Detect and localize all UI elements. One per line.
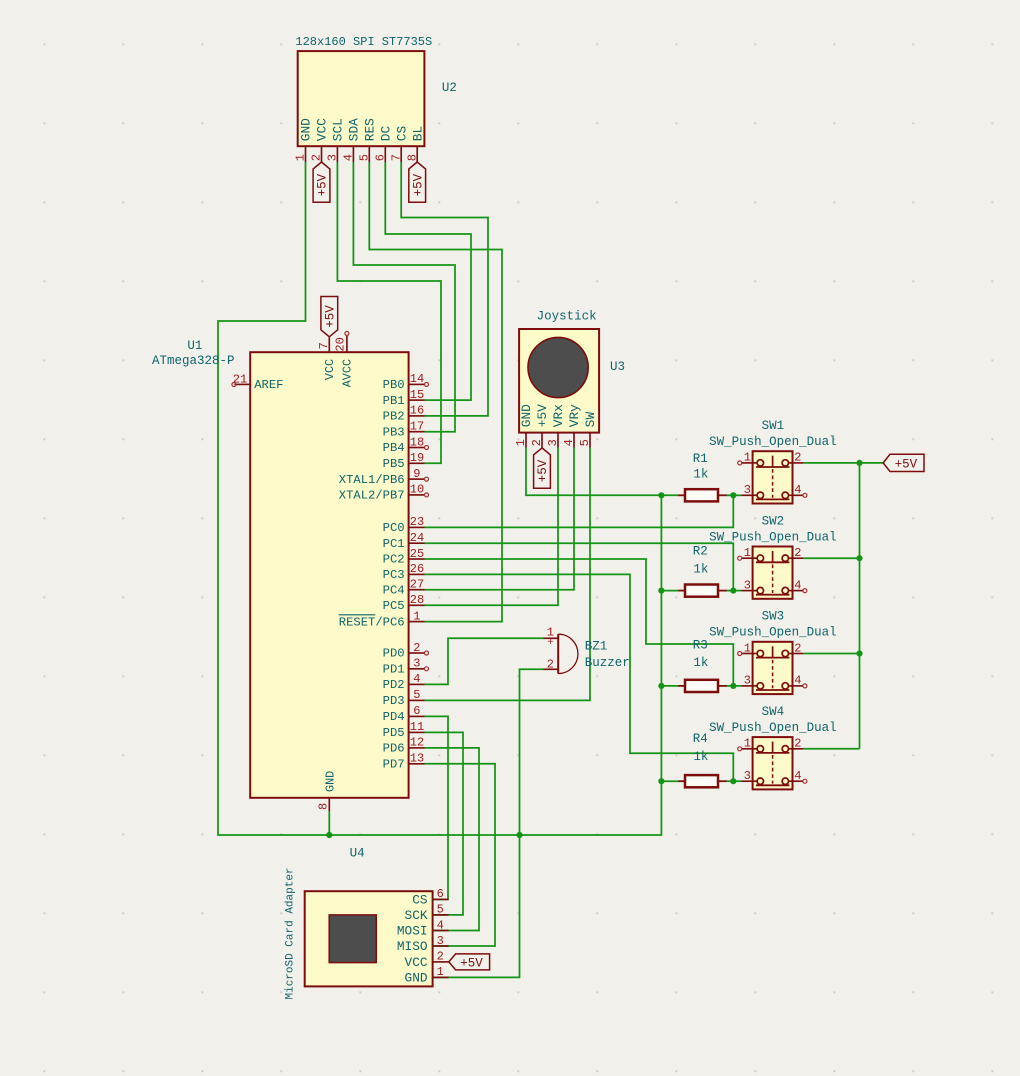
svg-text:1k: 1k: [693, 656, 708, 670]
svg-text:MOSI: MOSI: [397, 924, 428, 939]
svg-text:SW4: SW4: [762, 705, 785, 719]
svg-text:8: 8: [317, 803, 331, 810]
svg-text:XTAL1/PB6: XTAL1/PB6: [339, 473, 405, 487]
svg-text:1k: 1k: [693, 468, 708, 482]
svg-text:25: 25: [410, 547, 424, 561]
svg-text:1k: 1k: [693, 562, 708, 576]
svg-text:MISO: MISO: [397, 939, 428, 954]
svg-text:11: 11: [410, 720, 424, 734]
svg-text:3: 3: [437, 934, 444, 948]
svg-text:GND: GND: [519, 404, 534, 427]
svg-text:26: 26: [410, 562, 424, 576]
svg-text:1: 1: [744, 546, 751, 560]
svg-text:1: 1: [744, 641, 751, 655]
svg-text:U4: U4: [350, 846, 365, 860]
svg-text:4: 4: [562, 439, 576, 446]
svg-text:128x160 SPI ST7735S: 128x160 SPI ST7735S: [295, 35, 432, 49]
svg-text:5: 5: [578, 439, 592, 446]
svg-text:28: 28: [410, 593, 424, 607]
svg-text:RES: RES: [363, 118, 378, 141]
svg-text:SW_Push_Open_Dual: SW_Push_Open_Dual: [709, 530, 837, 544]
svg-text:R2: R2: [693, 545, 708, 559]
svg-text:+5V: +5V: [324, 305, 338, 328]
svg-text:SW_Push_Open_Dual: SW_Push_Open_Dual: [709, 435, 837, 449]
svg-text:4: 4: [794, 483, 801, 497]
svg-text:1: 1: [294, 154, 308, 161]
svg-text:2: 2: [530, 439, 544, 446]
svg-text:CS: CS: [412, 892, 428, 907]
svg-text:U2: U2: [442, 81, 457, 95]
svg-text:PB4: PB4: [383, 441, 405, 455]
svg-text:PB2: PB2: [383, 410, 405, 424]
svg-text:GND: GND: [405, 970, 428, 985]
svg-text:20: 20: [334, 337, 348, 351]
svg-text:PD5: PD5: [383, 726, 405, 740]
svg-text:SCK: SCK: [405, 908, 428, 923]
svg-text:1: 1: [514, 439, 528, 446]
svg-text:RESET/PC6: RESET/PC6: [339, 615, 405, 629]
svg-text:PD4: PD4: [383, 710, 405, 724]
svg-text:2: 2: [547, 658, 554, 672]
svg-text:3: 3: [326, 154, 340, 161]
svg-text:10: 10: [410, 483, 424, 497]
svg-text:2: 2: [794, 641, 801, 655]
svg-text:+5V: +5V: [895, 458, 918, 472]
svg-text:1: 1: [744, 737, 751, 751]
svg-text:+5V: +5V: [316, 173, 330, 196]
svg-text:R3: R3: [693, 638, 708, 652]
svg-text:U1: U1: [187, 339, 202, 353]
svg-text:12: 12: [410, 736, 424, 750]
svg-text:6: 6: [413, 704, 420, 718]
svg-text:1: 1: [437, 965, 444, 979]
svg-text:R1: R1: [693, 452, 708, 466]
svg-text:4: 4: [794, 578, 801, 592]
svg-text:PD3: PD3: [383, 694, 405, 708]
svg-text:SCL: SCL: [331, 118, 346, 141]
svg-text:8: 8: [405, 154, 419, 161]
svg-text:3: 3: [744, 578, 751, 592]
svg-text:GND: GND: [299, 118, 314, 141]
svg-text:2: 2: [794, 546, 801, 560]
svg-text:4: 4: [437, 918, 444, 932]
svg-text:PD7: PD7: [383, 758, 405, 772]
svg-text:14: 14: [410, 372, 424, 386]
svg-text:2: 2: [413, 641, 420, 655]
svg-text:PC2: PC2: [383, 553, 405, 567]
svg-text:4: 4: [794, 674, 801, 688]
svg-text:23: 23: [410, 515, 424, 529]
svg-text:13: 13: [410, 752, 424, 766]
svg-text:SDA: SDA: [347, 118, 362, 141]
svg-text:18: 18: [410, 435, 424, 449]
svg-text:PD1: PD1: [383, 663, 405, 677]
svg-text:1k: 1k: [693, 750, 708, 764]
svg-text:XTAL2/PB7: XTAL2/PB7: [339, 489, 405, 503]
svg-text:ATmega328-P: ATmega328-P: [152, 354, 235, 368]
svg-text:2: 2: [794, 737, 801, 751]
svg-text:19: 19: [410, 451, 424, 465]
svg-text:+: +: [547, 638, 553, 649]
svg-text:4: 4: [794, 769, 801, 783]
svg-text:27: 27: [410, 578, 424, 592]
svg-text:5: 5: [413, 688, 420, 702]
svg-text:MicroSD Card Adapter: MicroSD Card Adapter: [284, 867, 296, 999]
svg-text:AVCC: AVCC: [341, 359, 355, 387]
svg-text:2: 2: [310, 154, 324, 161]
svg-text:VCC: VCC: [405, 955, 428, 970]
svg-text:U3: U3: [610, 360, 625, 374]
svg-text:BZ1: BZ1: [585, 639, 608, 653]
svg-text:3: 3: [546, 439, 560, 446]
svg-text:4: 4: [342, 154, 356, 161]
svg-text:3: 3: [744, 674, 751, 688]
svg-text:3: 3: [744, 483, 751, 497]
svg-text:VRy: VRy: [567, 404, 582, 427]
svg-text:3: 3: [413, 657, 420, 671]
svg-text:6: 6: [374, 154, 388, 161]
svg-text:SW1: SW1: [762, 419, 785, 433]
svg-text:Buzzer: Buzzer: [585, 656, 630, 670]
svg-text:6: 6: [437, 887, 444, 901]
svg-text:VRx: VRx: [551, 404, 566, 427]
svg-text:15: 15: [410, 388, 424, 402]
svg-text:VCC: VCC: [315, 118, 330, 141]
svg-text:PD2: PD2: [383, 678, 405, 692]
svg-text:21: 21: [233, 372, 247, 386]
svg-text:9: 9: [413, 467, 420, 481]
svg-text:SW_Push_Open_Dual: SW_Push_Open_Dual: [709, 626, 837, 640]
svg-text:SW: SW: [583, 412, 598, 428]
svg-text:2: 2: [437, 950, 444, 964]
svg-text:17: 17: [410, 420, 424, 434]
svg-text:PC0: PC0: [383, 521, 405, 535]
svg-text:PB5: PB5: [383, 457, 405, 471]
svg-text:7: 7: [317, 342, 331, 349]
svg-text:BL: BL: [410, 126, 425, 141]
svg-text:+5V: +5V: [411, 173, 425, 196]
svg-text:VCC: VCC: [323, 359, 337, 380]
svg-text:PB0: PB0: [383, 378, 405, 392]
svg-text:AREF: AREF: [254, 378, 283, 392]
svg-text:Joystick: Joystick: [537, 309, 597, 323]
svg-text:2: 2: [794, 451, 801, 465]
svg-text:PB1: PB1: [383, 394, 405, 408]
svg-text:1: 1: [744, 451, 751, 465]
svg-text:+5V: +5V: [460, 957, 483, 971]
svg-text:PB3: PB3: [383, 425, 405, 439]
svg-text:DC: DC: [379, 126, 394, 142]
svg-text:4: 4: [413, 672, 420, 686]
svg-text:SW2: SW2: [762, 514, 785, 528]
svg-text:24: 24: [410, 531, 424, 545]
svg-text:5: 5: [437, 903, 444, 917]
svg-text:GND: GND: [323, 771, 337, 792]
svg-text:CS: CS: [394, 126, 409, 142]
svg-text:5: 5: [358, 154, 372, 161]
svg-text:R4: R4: [693, 732, 708, 746]
svg-text:3: 3: [744, 769, 751, 783]
svg-text:SW3: SW3: [762, 610, 785, 624]
svg-text:PD6: PD6: [383, 742, 405, 756]
svg-text:16: 16: [410, 404, 424, 418]
svg-text:PC4: PC4: [383, 583, 405, 597]
svg-text:+5V: +5V: [535, 404, 550, 427]
svg-text:PC5: PC5: [383, 599, 405, 613]
svg-text:SW_Push_Open_Dual: SW_Push_Open_Dual: [709, 721, 837, 735]
svg-text:PD0: PD0: [383, 647, 405, 661]
svg-text:PC3: PC3: [383, 568, 405, 582]
svg-text:PC1: PC1: [383, 537, 405, 551]
svg-text:7: 7: [389, 154, 403, 161]
svg-text:1: 1: [413, 609, 420, 623]
svg-text:+5V: +5V: [536, 459, 550, 482]
